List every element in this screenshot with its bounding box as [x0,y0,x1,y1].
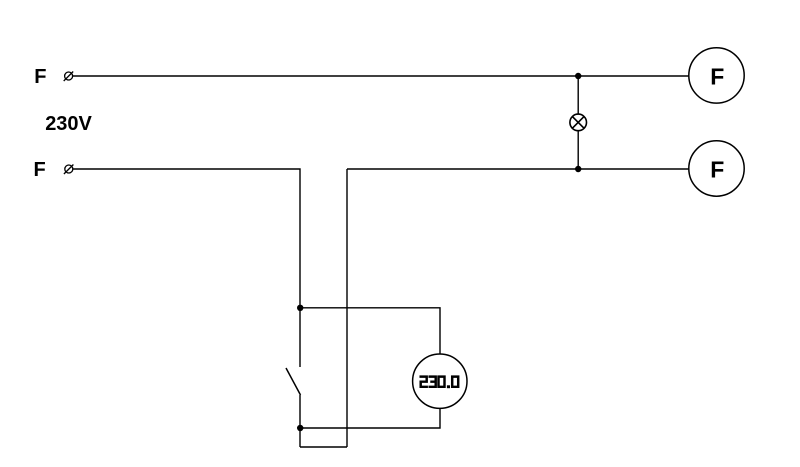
svg-text:F: F [34,159,46,181]
digit 0 [452,377,458,387]
terminal T1 (top, circle with slash) [64,72,73,82]
digit 3 [430,377,436,387]
wire voltmeter bottom tap [300,408,440,428]
meter U1 (phase indicator F top) [689,48,744,103]
voltmeter V1 digital readout 230.0 [421,377,459,389]
decimal point [447,385,450,388]
wire top phase horizontal [73,75,689,77]
digit 2 [421,377,427,387]
meter U2 (phase indicator F bottom) [689,141,744,196]
terminal T2 (bottom, circle with slash) [64,165,74,175]
switch S1 blade (open) [286,368,301,395]
svg-text:F: F [710,156,724,182]
node junction bottom phase [575,166,581,172]
lamp branch wire upper [577,76,579,114]
wire bottom phase left segment with drop to switch [73,169,300,367]
wire bottom phase right segment [347,168,689,170]
node junction top phase [575,73,581,79]
wire bottom jog to riser [300,446,347,448]
wire return riser x=347 [346,169,348,447]
lamp branch wire lower [577,131,579,169]
voltmeter V1 circle [413,354,467,408]
wire voltmeter top tap [300,308,440,354]
digit 0 [439,377,445,387]
svg-text:F: F [710,63,724,89]
node junction bottom tap [297,425,303,431]
svg-text:F: F [34,66,46,88]
wire below switch [299,395,301,447]
lamp L1 (circle with X) [570,114,587,131]
node junction top tap [297,305,303,311]
svg-text:230V: 230V [45,113,92,135]
